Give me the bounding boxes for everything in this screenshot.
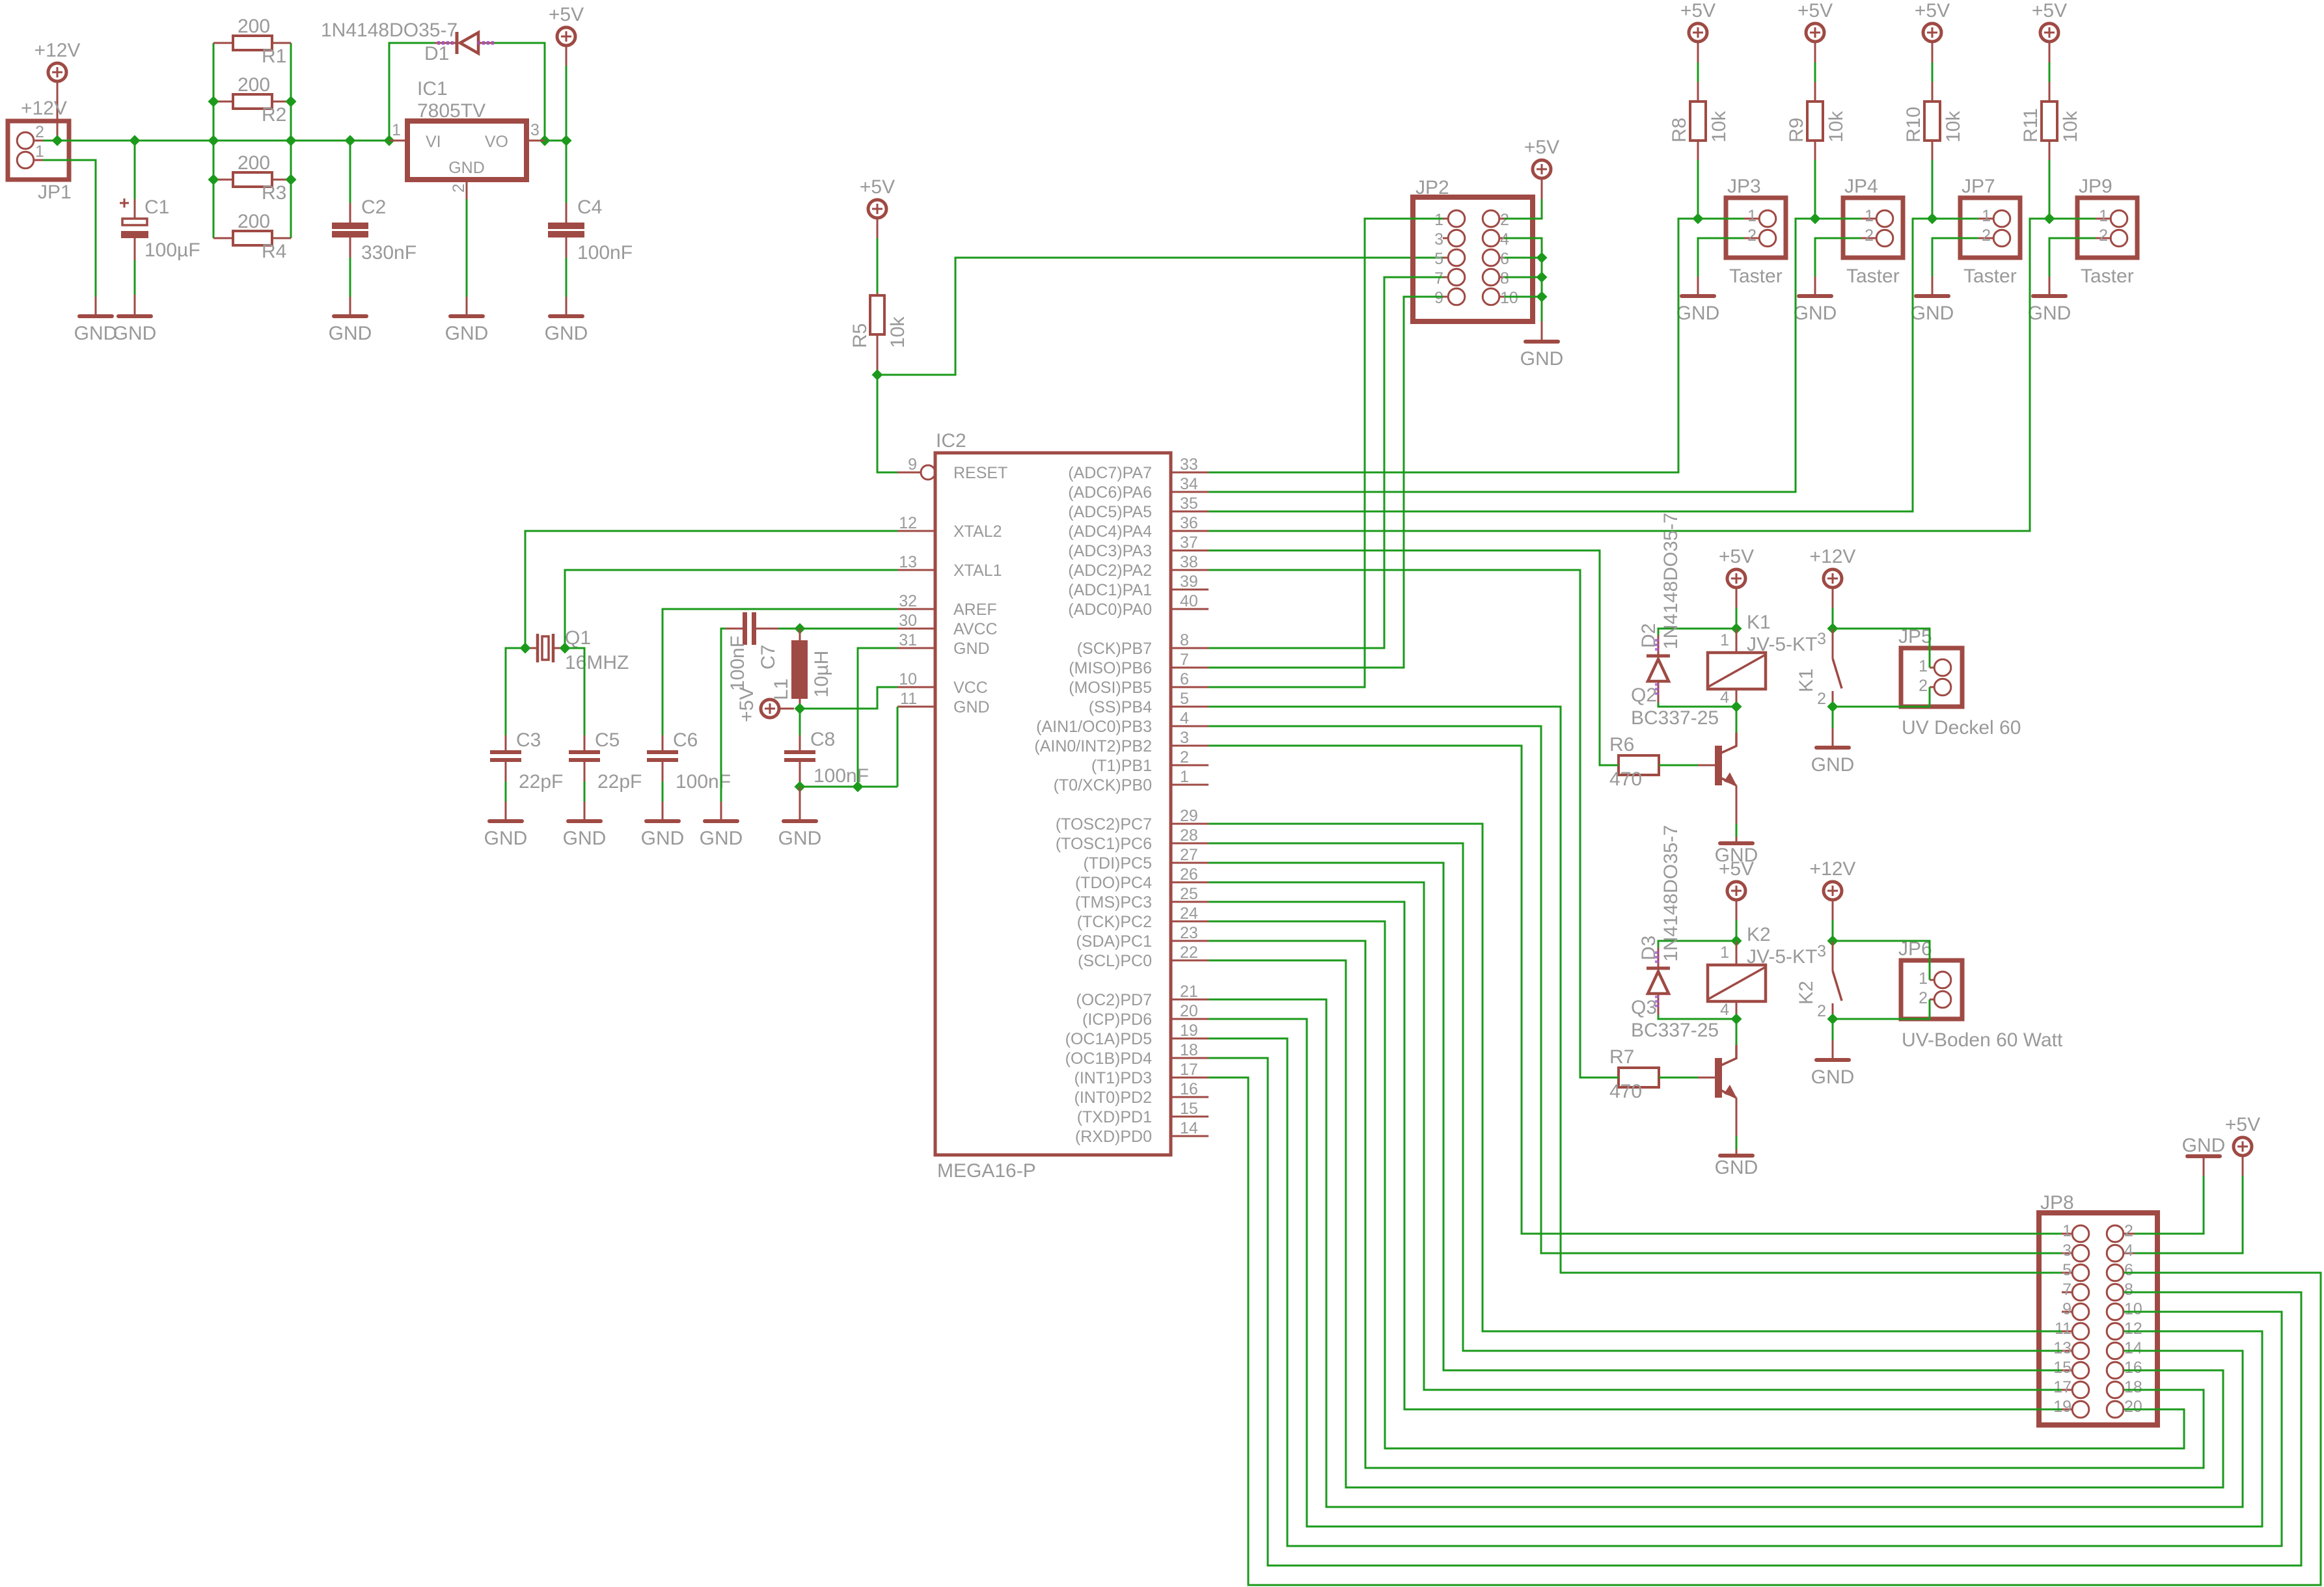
svg-text:+5V: +5V bbox=[1915, 0, 1950, 21]
node crystal left bbox=[520, 643, 531, 654]
svg-text:GND: GND bbox=[329, 323, 372, 344]
IC2 pin 22 (SCL)PC0 bbox=[1078, 943, 1209, 970]
svg-text:BC337-25: BC337-25 bbox=[1631, 1020, 1719, 1041]
svg-text:GND: GND bbox=[778, 828, 822, 849]
svg-text:28: 28 bbox=[1180, 826, 1198, 845]
svg-text:4: 4 bbox=[1180, 709, 1189, 727]
svg-text:6: 6 bbox=[1180, 670, 1189, 688]
svg-text:R5: R5 bbox=[849, 323, 871, 348]
svg-text:C6: C6 bbox=[673, 729, 698, 751]
wire JP2 GND pins chain bbox=[1505, 238, 1542, 321]
wire IC1 GND pin to ground bbox=[466, 180, 468, 199]
node ladder junctions bbox=[208, 96, 219, 107]
wire PC5 net to JP8 pin15 bbox=[1209, 863, 2062, 1370]
svg-text:GND: GND bbox=[74, 323, 118, 344]
svg-text:19: 19 bbox=[2053, 1398, 2071, 1416]
IC2 pin 28 (TOSC1)PC6 bbox=[1056, 826, 1209, 853]
capacitor C6 100nF bbox=[647, 729, 731, 793]
wire Q2 emitter to GND bbox=[1736, 785, 1738, 824]
svg-text:2: 2 bbox=[1982, 226, 1991, 245]
svg-text:Q3: Q3 bbox=[1631, 997, 1657, 1018]
svg-text:1: 1 bbox=[1180, 768, 1189, 786]
svg-text:+5V: +5V bbox=[736, 687, 758, 722]
connector JP2 (ISP header) bbox=[1413, 177, 1533, 321]
svg-text:38: 38 bbox=[1180, 553, 1198, 571]
wire JP9 net to IC2 bbox=[1209, 219, 2049, 531]
svg-text:35: 35 bbox=[1180, 495, 1198, 513]
wire +12V to K2 contact bbox=[1832, 901, 1834, 920]
wire +12V to JP6 pin1 bbox=[1833, 941, 1930, 980]
wire MISO JP2 pin9 to IC2 pin 7 bbox=[1209, 297, 1443, 668]
svg-text:1: 1 bbox=[1919, 657, 1928, 675]
svg-text:+5V: +5V bbox=[860, 176, 895, 198]
svg-text:C5: C5 bbox=[595, 729, 620, 751]
IC2 pin 19 (OC1A)PD5 bbox=[1065, 1022, 1209, 1048]
svg-text:7: 7 bbox=[1434, 269, 1443, 288]
svg-text:8: 8 bbox=[2124, 1281, 2133, 1299]
IC2 pin 27 (TDI)PC5 bbox=[1083, 846, 1209, 873]
svg-text:R4: R4 bbox=[262, 241, 286, 262]
svg-text:IC2: IC2 bbox=[936, 430, 966, 452]
svg-text:JP1: JP1 bbox=[38, 182, 72, 203]
svg-text:14: 14 bbox=[1180, 1119, 1198, 1137]
svg-text:(RXD)PD0: (RXD)PD0 bbox=[1075, 1128, 1152, 1146]
svg-text:GND: GND bbox=[700, 828, 743, 849]
svg-text:2: 2 bbox=[1919, 989, 1928, 1007]
svg-text:(OC1B)PD4: (OC1B)PD4 bbox=[1065, 1050, 1152, 1068]
wire IC2 pin 31 GND bbox=[858, 648, 897, 787]
ground symbol bbox=[1794, 296, 1837, 324]
svg-text:12: 12 bbox=[899, 514, 917, 532]
wire +12V to K1 contact bbox=[1832, 588, 1834, 608]
IC2 pin 29 (TOSC2)PC7 bbox=[1056, 807, 1209, 834]
wire to C4 bbox=[566, 141, 567, 203]
resistor R1 200 bbox=[213, 16, 291, 67]
wire JP4 pin1 bbox=[1815, 218, 1861, 220]
svg-text:R10: R10 bbox=[1903, 107, 1924, 142]
wire +12V stub bbox=[57, 82, 59, 141]
node D1 output junction bbox=[540, 135, 551, 146]
svg-text:GND: GND bbox=[545, 323, 588, 344]
wire IC2 to R6 bbox=[1209, 550, 1619, 765]
svg-text:R2: R2 bbox=[262, 104, 286, 126]
svg-text:8: 8 bbox=[1500, 269, 1509, 288]
wire main +12V rail bbox=[57, 140, 407, 142]
IC2 pin 21 (OC2)PD7 bbox=[1076, 983, 1209, 1009]
wire PC7 net to JP8 pin11 bbox=[1209, 824, 2062, 1331]
svg-text:(SDA)PC1: (SDA)PC1 bbox=[1076, 932, 1152, 951]
ground symbol bbox=[1676, 296, 1720, 324]
wire PB4 net to JP8 pin5 bbox=[1209, 707, 2062, 1273]
svg-text:R6: R6 bbox=[1609, 734, 1634, 755]
svg-text:4: 4 bbox=[1720, 1001, 1729, 1019]
IC2 pin 38 (ADC2)PA2 bbox=[1068, 553, 1209, 580]
ground symbol bbox=[1911, 296, 1954, 324]
svg-text:+5V: +5V bbox=[1524, 137, 1559, 158]
svg-text:17: 17 bbox=[2053, 1378, 2071, 1396]
wire C8 bottom bbox=[799, 762, 801, 787]
wire R7 to Q3 base bbox=[1659, 1077, 1698, 1079]
svg-text:7805TV: 7805TV bbox=[417, 100, 485, 122]
microcontroller IC2 MEGA16-P body bbox=[935, 430, 1171, 1182]
IC2 pin 11 GND bbox=[897, 690, 990, 716]
wire +5V to K1 coil bbox=[1736, 588, 1738, 608]
wire JP7 pin1 bbox=[1932, 218, 1978, 220]
wire D1 left leg bbox=[389, 43, 435, 141]
node JP4 pin1 junction bbox=[1810, 213, 1821, 224]
svg-text:15: 15 bbox=[1180, 1100, 1198, 1118]
wire IC2 pin 11 GND bbox=[897, 707, 899, 787]
svg-text:1: 1 bbox=[1434, 211, 1443, 229]
wire Q3 emitter to GND bbox=[1736, 1098, 1738, 1136]
ground symbol bbox=[545, 316, 588, 344]
wire +5V to R11 bbox=[2049, 42, 2051, 62]
svg-text:330nF: 330nF bbox=[361, 242, 417, 264]
svg-text:(ICP)PD6: (ICP)PD6 bbox=[1082, 1011, 1152, 1029]
wire JP8 pin2 to GND bbox=[2203, 1156, 2205, 1176]
svg-text:18: 18 bbox=[1180, 1041, 1198, 1059]
IC2 pin 8 (SCK)PB7 bbox=[1077, 631, 1209, 658]
svg-text:470: 470 bbox=[1609, 1081, 1642, 1102]
svg-text:(TXD)PD1: (TXD)PD1 bbox=[1077, 1108, 1152, 1126]
svg-text:C3: C3 bbox=[516, 729, 541, 751]
wire JP2 GND to ground bbox=[1541, 321, 1543, 342]
svg-text:6: 6 bbox=[2124, 1261, 2133, 1279]
svg-text:GND: GND bbox=[641, 828, 685, 849]
wire GND bus under C8 bbox=[800, 786, 897, 788]
svg-text:GND: GND bbox=[113, 323, 157, 344]
capacitor C8 100nF bbox=[784, 729, 869, 787]
svg-text:(INT0)PD2: (INT0)PD2 bbox=[1074, 1089, 1152, 1107]
svg-text:(ADC5)PA5: (ADC5)PA5 bbox=[1068, 503, 1152, 521]
svg-text:Taster: Taster bbox=[1963, 265, 2017, 287]
svg-text:9: 9 bbox=[908, 455, 917, 474]
connector JP4 Taster bbox=[1843, 176, 1903, 287]
wire VCC net to IC2 pin 10 bbox=[800, 687, 897, 709]
svg-text:10k: 10k bbox=[887, 316, 909, 348]
transistor Q3 BC337-25 bbox=[1631, 997, 1737, 1098]
svg-text:14: 14 bbox=[2124, 1339, 2142, 1357]
diode D2 1N4148DO35-7 bbox=[1638, 513, 1736, 707]
wire C4 to GND bbox=[566, 237, 567, 258]
svg-text:AREF: AREF bbox=[953, 601, 997, 619]
svg-text:+5V: +5V bbox=[549, 4, 584, 25]
svg-text:24: 24 bbox=[1180, 904, 1198, 923]
svg-text:16MHZ: 16MHZ bbox=[565, 652, 629, 673]
IC2 pin 32 AREF bbox=[897, 592, 997, 619]
svg-text:C2: C2 bbox=[361, 197, 386, 218]
resistor R10 10k bbox=[1903, 102, 1964, 142]
svg-text:D1: D1 bbox=[424, 43, 449, 64]
svg-text:GND: GND bbox=[563, 828, 607, 849]
connector JP5 bbox=[1898, 626, 2021, 739]
svg-text:GND: GND bbox=[1811, 1066, 1855, 1088]
resistor R5 10k bbox=[849, 219, 909, 375]
svg-text:+12V: +12V bbox=[1810, 858, 1856, 880]
node C8 ground junction bbox=[795, 781, 806, 793]
svg-text:UV-Boden 60 Watt: UV-Boden 60 Watt bbox=[1902, 1029, 2063, 1051]
wire PC2 net to JP8 pin20 bbox=[1209, 921, 2184, 1448]
svg-text:34: 34 bbox=[1180, 475, 1198, 493]
svg-text:(INT1)PD3: (INT1)PD3 bbox=[1074, 1069, 1152, 1087]
supply +5V symbol bbox=[1680, 0, 1716, 42]
svg-text:GND: GND bbox=[1811, 754, 1855, 776]
svg-text:19: 19 bbox=[1180, 1022, 1198, 1040]
svg-text:GND: GND bbox=[484, 828, 528, 849]
node K2 contact bottom junction bbox=[1827, 1014, 1839, 1025]
svg-text:+12V: +12V bbox=[21, 98, 67, 119]
svg-text:12: 12 bbox=[2124, 1320, 2142, 1338]
wire RESET net to JP2 pin 5 bbox=[877, 258, 1443, 375]
svg-text:(AIN0/INT2)PB2: (AIN0/INT2)PB2 bbox=[1034, 737, 1152, 755]
svg-text:L1: L1 bbox=[771, 679, 792, 700]
svg-text:(T0/XCK)PB0: (T0/XCK)PB0 bbox=[1054, 776, 1152, 794]
IC2 pin 33 (ADC7)PA7 bbox=[1068, 455, 1209, 482]
svg-text:R8: R8 bbox=[1669, 118, 1690, 142]
svg-text:(TOSC1)PC6: (TOSC1)PC6 bbox=[1056, 835, 1152, 853]
svg-text:3: 3 bbox=[2062, 1241, 2071, 1260]
inductor L1 10µH bbox=[771, 629, 832, 709]
svg-text:3: 3 bbox=[1434, 230, 1443, 249]
IC2 pin 23 (SDA)PC1 bbox=[1076, 924, 1209, 951]
wire PC4 net to JP8 pin17 bbox=[1209, 882, 2062, 1390]
svg-text:GND: GND bbox=[953, 640, 990, 658]
svg-text:9: 9 bbox=[2062, 1300, 2071, 1318]
wire AREF to C6 bbox=[663, 609, 897, 735]
wire JP9 pin2 to GND bbox=[2049, 238, 2096, 277]
svg-text:GND: GND bbox=[1794, 303, 1837, 324]
wire +5V to R9 bbox=[1814, 42, 1816, 62]
wire +5V to R10 bbox=[1932, 42, 1934, 62]
node K1 contact bottom junction bbox=[1827, 701, 1839, 712]
IC2 pin 31 GND bbox=[897, 631, 990, 658]
supply +5V symbol bbox=[1915, 0, 1950, 42]
node K2 coil top junction bbox=[1731, 936, 1742, 947]
relay contact K2 bbox=[1796, 941, 1842, 1020]
svg-text:(T1)PB1: (T1)PB1 bbox=[1091, 757, 1152, 775]
svg-text:470: 470 bbox=[1609, 768, 1642, 790]
diode D1 1N4148DO35-7 bbox=[321, 20, 497, 64]
svg-text:Taster: Taster bbox=[1846, 265, 1900, 287]
wire IC2 to R7 bbox=[1209, 570, 1619, 1078]
IC2 pin 9 RESET bbox=[897, 455, 1007, 482]
node K1 contact top junction bbox=[1827, 623, 1839, 634]
svg-text:(TDI)PC5: (TDI)PC5 bbox=[1083, 854, 1152, 873]
wire R11 to junction bbox=[2049, 141, 2051, 160]
svg-text:Taster: Taster bbox=[2081, 265, 2134, 287]
wire XTAL2 to crystal bbox=[525, 531, 897, 648]
svg-text:4: 4 bbox=[1720, 688, 1729, 707]
IC2 pin 30 AVCC bbox=[897, 612, 998, 638]
svg-text:20: 20 bbox=[1180, 1002, 1198, 1020]
svg-text:R9: R9 bbox=[1786, 118, 1807, 142]
svg-text:100nF: 100nF bbox=[676, 771, 731, 793]
svg-text:8: 8 bbox=[1180, 631, 1189, 649]
wire crystal right to C5 bbox=[565, 648, 584, 735]
svg-text:22pF: 22pF bbox=[597, 771, 642, 793]
node JP9 pin1 junction bbox=[2044, 213, 2055, 224]
svg-text:20: 20 bbox=[2124, 1398, 2142, 1416]
connector JP6 bbox=[1898, 938, 2063, 1051]
wire PC6 net to JP8 pin13 bbox=[1209, 843, 2062, 1351]
ground symbol bbox=[1520, 342, 1564, 370]
wire C5 to GND bbox=[584, 762, 586, 781]
wire PD5 net to JP8 pin10 bbox=[1209, 1038, 2282, 1546]
svg-text:6: 6 bbox=[1500, 250, 1509, 268]
svg-text:7: 7 bbox=[2062, 1281, 2071, 1299]
svg-text:IC1: IC1 bbox=[417, 78, 448, 100]
svg-text:(ADC0)PA0: (ADC0)PA0 bbox=[1068, 601, 1152, 619]
ground symbol bbox=[563, 821, 607, 849]
svg-text:2: 2 bbox=[2099, 226, 2108, 245]
transistor Q2 BC337-25 bbox=[1631, 685, 1737, 786]
supply +5V symbol bbox=[860, 176, 895, 218]
ground symbol bbox=[445, 316, 489, 344]
wire JP3 pin1 bbox=[1698, 218, 1744, 220]
ground symbol bbox=[1715, 1156, 1758, 1178]
svg-text:7: 7 bbox=[1180, 651, 1189, 669]
svg-text:1: 1 bbox=[35, 142, 44, 161]
voltage regulator IC1 7805TV bbox=[389, 78, 545, 193]
svg-text:K2: K2 bbox=[1747, 924, 1771, 945]
wire C1 to GND bbox=[134, 238, 136, 260]
svg-text:200: 200 bbox=[238, 74, 270, 96]
wire C6 to GND bbox=[662, 762, 664, 781]
IC2 pin 16 (INT0)PD2 bbox=[1074, 1080, 1209, 1107]
wire K1 contact to GND bbox=[1832, 707, 1834, 728]
IC2 pin 35 (ADC5)PA5 bbox=[1068, 495, 1209, 521]
svg-text:+5V: +5V bbox=[1719, 858, 1754, 880]
wire resistor ladder right rail bbox=[290, 43, 292, 238]
svg-text:2: 2 bbox=[35, 123, 44, 141]
svg-text:100µF: 100µF bbox=[144, 239, 200, 261]
wire PC3 net to JP8 pin19 bbox=[1209, 902, 2062, 1409]
svg-text:R11: R11 bbox=[2020, 108, 2042, 142]
wire AVCC to C7 bbox=[778, 628, 897, 630]
svg-text:+5V: +5V bbox=[1798, 0, 1833, 21]
wire JP8 pin4 to +5V bbox=[2242, 1156, 2244, 1176]
ground symbol bbox=[641, 821, 685, 849]
wire crystal left to C3 bbox=[506, 648, 525, 735]
node +12V junction at JP1 bbox=[52, 135, 63, 146]
wire JP5 pin2 to GND net bbox=[1833, 687, 1930, 707]
resistor R2 200 bbox=[213, 74, 291, 126]
resistor R11 10k bbox=[2020, 102, 2081, 142]
resistor R6 470 bbox=[1609, 734, 1659, 790]
wire K2 contact to GND bbox=[1832, 1019, 1834, 1040]
connector JP1 bbox=[8, 121, 72, 203]
capacitor C4 100nF bbox=[548, 197, 633, 264]
IC2 pin 37 (ADC3)PA3 bbox=[1068, 534, 1209, 560]
svg-text:+5V: +5V bbox=[1680, 0, 1716, 21]
svg-text:10k: 10k bbox=[1943, 111, 1964, 142]
svg-text:GND: GND bbox=[2028, 303, 2071, 324]
svg-text:1N4148DO35-7: 1N4148DO35-7 bbox=[1660, 513, 1682, 649]
wire C3 to GND bbox=[505, 762, 507, 781]
svg-text:1: 1 bbox=[1865, 207, 1874, 225]
svg-text:(SS)PB4: (SS)PB4 bbox=[1089, 698, 1152, 716]
svg-text:2: 2 bbox=[1180, 748, 1189, 766]
node RESET junction bbox=[872, 370, 883, 381]
svg-text:1: 1 bbox=[1720, 631, 1729, 649]
svg-text:10: 10 bbox=[2124, 1300, 2142, 1318]
wire JP7 pin2 to GND bbox=[1932, 238, 1978, 277]
wire JP9 pin1 bbox=[2049, 218, 2096, 220]
svg-text:(SCL)PC0: (SCL)PC0 bbox=[1078, 952, 1152, 970]
node pin31 ground junction bbox=[853, 781, 864, 793]
svg-text:(ADC6)PA6: (ADC6)PA6 bbox=[1068, 483, 1152, 502]
svg-text:1: 1 bbox=[1919, 970, 1928, 988]
node K2 contact top junction bbox=[1827, 936, 1839, 947]
svg-text:37: 37 bbox=[1180, 534, 1198, 552]
svg-text:JP8: JP8 bbox=[2040, 1192, 2074, 1214]
IC2 pin 1 (T0/XCK)PB0 bbox=[1054, 768, 1209, 794]
svg-text:GND: GND bbox=[448, 159, 485, 177]
svg-text:36: 36 bbox=[1180, 514, 1198, 532]
svg-text:+5V: +5V bbox=[2225, 1114, 2260, 1135]
svg-text:22: 22 bbox=[1180, 943, 1198, 962]
svg-text:C8: C8 bbox=[810, 729, 835, 750]
svg-text:16: 16 bbox=[2124, 1359, 2142, 1377]
svg-text:(TMS)PC3: (TMS)PC3 bbox=[1075, 893, 1152, 912]
svg-text:10k: 10k bbox=[1825, 111, 1847, 142]
svg-text:+5V: +5V bbox=[2032, 0, 2067, 21]
IC2 pin 3 (AIN0/INT2)PB2 bbox=[1034, 729, 1209, 755]
svg-text:2: 2 bbox=[2124, 1222, 2133, 1240]
svg-text:100nF: 100nF bbox=[577, 242, 633, 264]
svg-text:2: 2 bbox=[1817, 1002, 1826, 1020]
supply +5V symbol bbox=[1719, 858, 1754, 900]
resistor R9 10k bbox=[1786, 102, 1847, 142]
svg-text:R1: R1 bbox=[262, 46, 286, 67]
svg-text:+12V: +12V bbox=[1810, 546, 1856, 567]
wire JP7 net to IC2 bbox=[1209, 219, 1932, 511]
svg-text:15: 15 bbox=[2053, 1359, 2071, 1377]
capacitor C5 22pF bbox=[569, 729, 642, 793]
svg-text:VI: VI bbox=[426, 133, 441, 151]
wire MOSI JP2 pin1 to IC2 pin 6 bbox=[1209, 219, 1443, 687]
svg-text:1: 1 bbox=[1720, 943, 1729, 962]
connector JP8 bbox=[2039, 1192, 2157, 1425]
node JP2 pin6 junction bbox=[1537, 252, 1548, 264]
wire to C1 bbox=[134, 141, 136, 199]
wire XTAL1 to crystal bbox=[565, 570, 897, 648]
svg-text:JV-5-KT: JV-5-KT bbox=[1747, 946, 1817, 968]
svg-text:3: 3 bbox=[1180, 729, 1189, 747]
svg-text:(OC2)PD7: (OC2)PD7 bbox=[1076, 991, 1152, 1009]
power symbol +5V (regulator output) bbox=[549, 4, 584, 46]
crystal Q1 16MHZ bbox=[525, 627, 629, 673]
svg-text:(TCK)PC2: (TCK)PC2 bbox=[1077, 913, 1152, 931]
svg-text:3: 3 bbox=[1817, 942, 1826, 960]
svg-text:VO: VO bbox=[485, 133, 508, 151]
wire JP1 pin1 to GND bbox=[43, 160, 96, 297]
IC2 pin 17 (INT1)PD3 bbox=[1074, 1061, 1209, 1087]
svg-text:10: 10 bbox=[1500, 289, 1518, 307]
relay K1 JV-5-KT coil bbox=[1708, 612, 1817, 707]
wire L1 to C8 bbox=[799, 709, 801, 735]
IC2 pin 14 (RXD)PD0 bbox=[1075, 1119, 1209, 1146]
svg-text:10: 10 bbox=[899, 670, 917, 688]
svg-text:16: 16 bbox=[1180, 1080, 1198, 1098]
IC2 pin 34 (ADC6)PA6 bbox=[1068, 475, 1209, 502]
IC2 pin 12 XTAL2 bbox=[897, 514, 1002, 541]
svg-text:5: 5 bbox=[1180, 690, 1189, 708]
ground symbol bbox=[700, 821, 743, 849]
wire PD3 net to JP8 pin6 bbox=[1209, 1078, 2321, 1585]
svg-text:2: 2 bbox=[1817, 690, 1826, 708]
svg-text:C4: C4 bbox=[577, 197, 602, 218]
